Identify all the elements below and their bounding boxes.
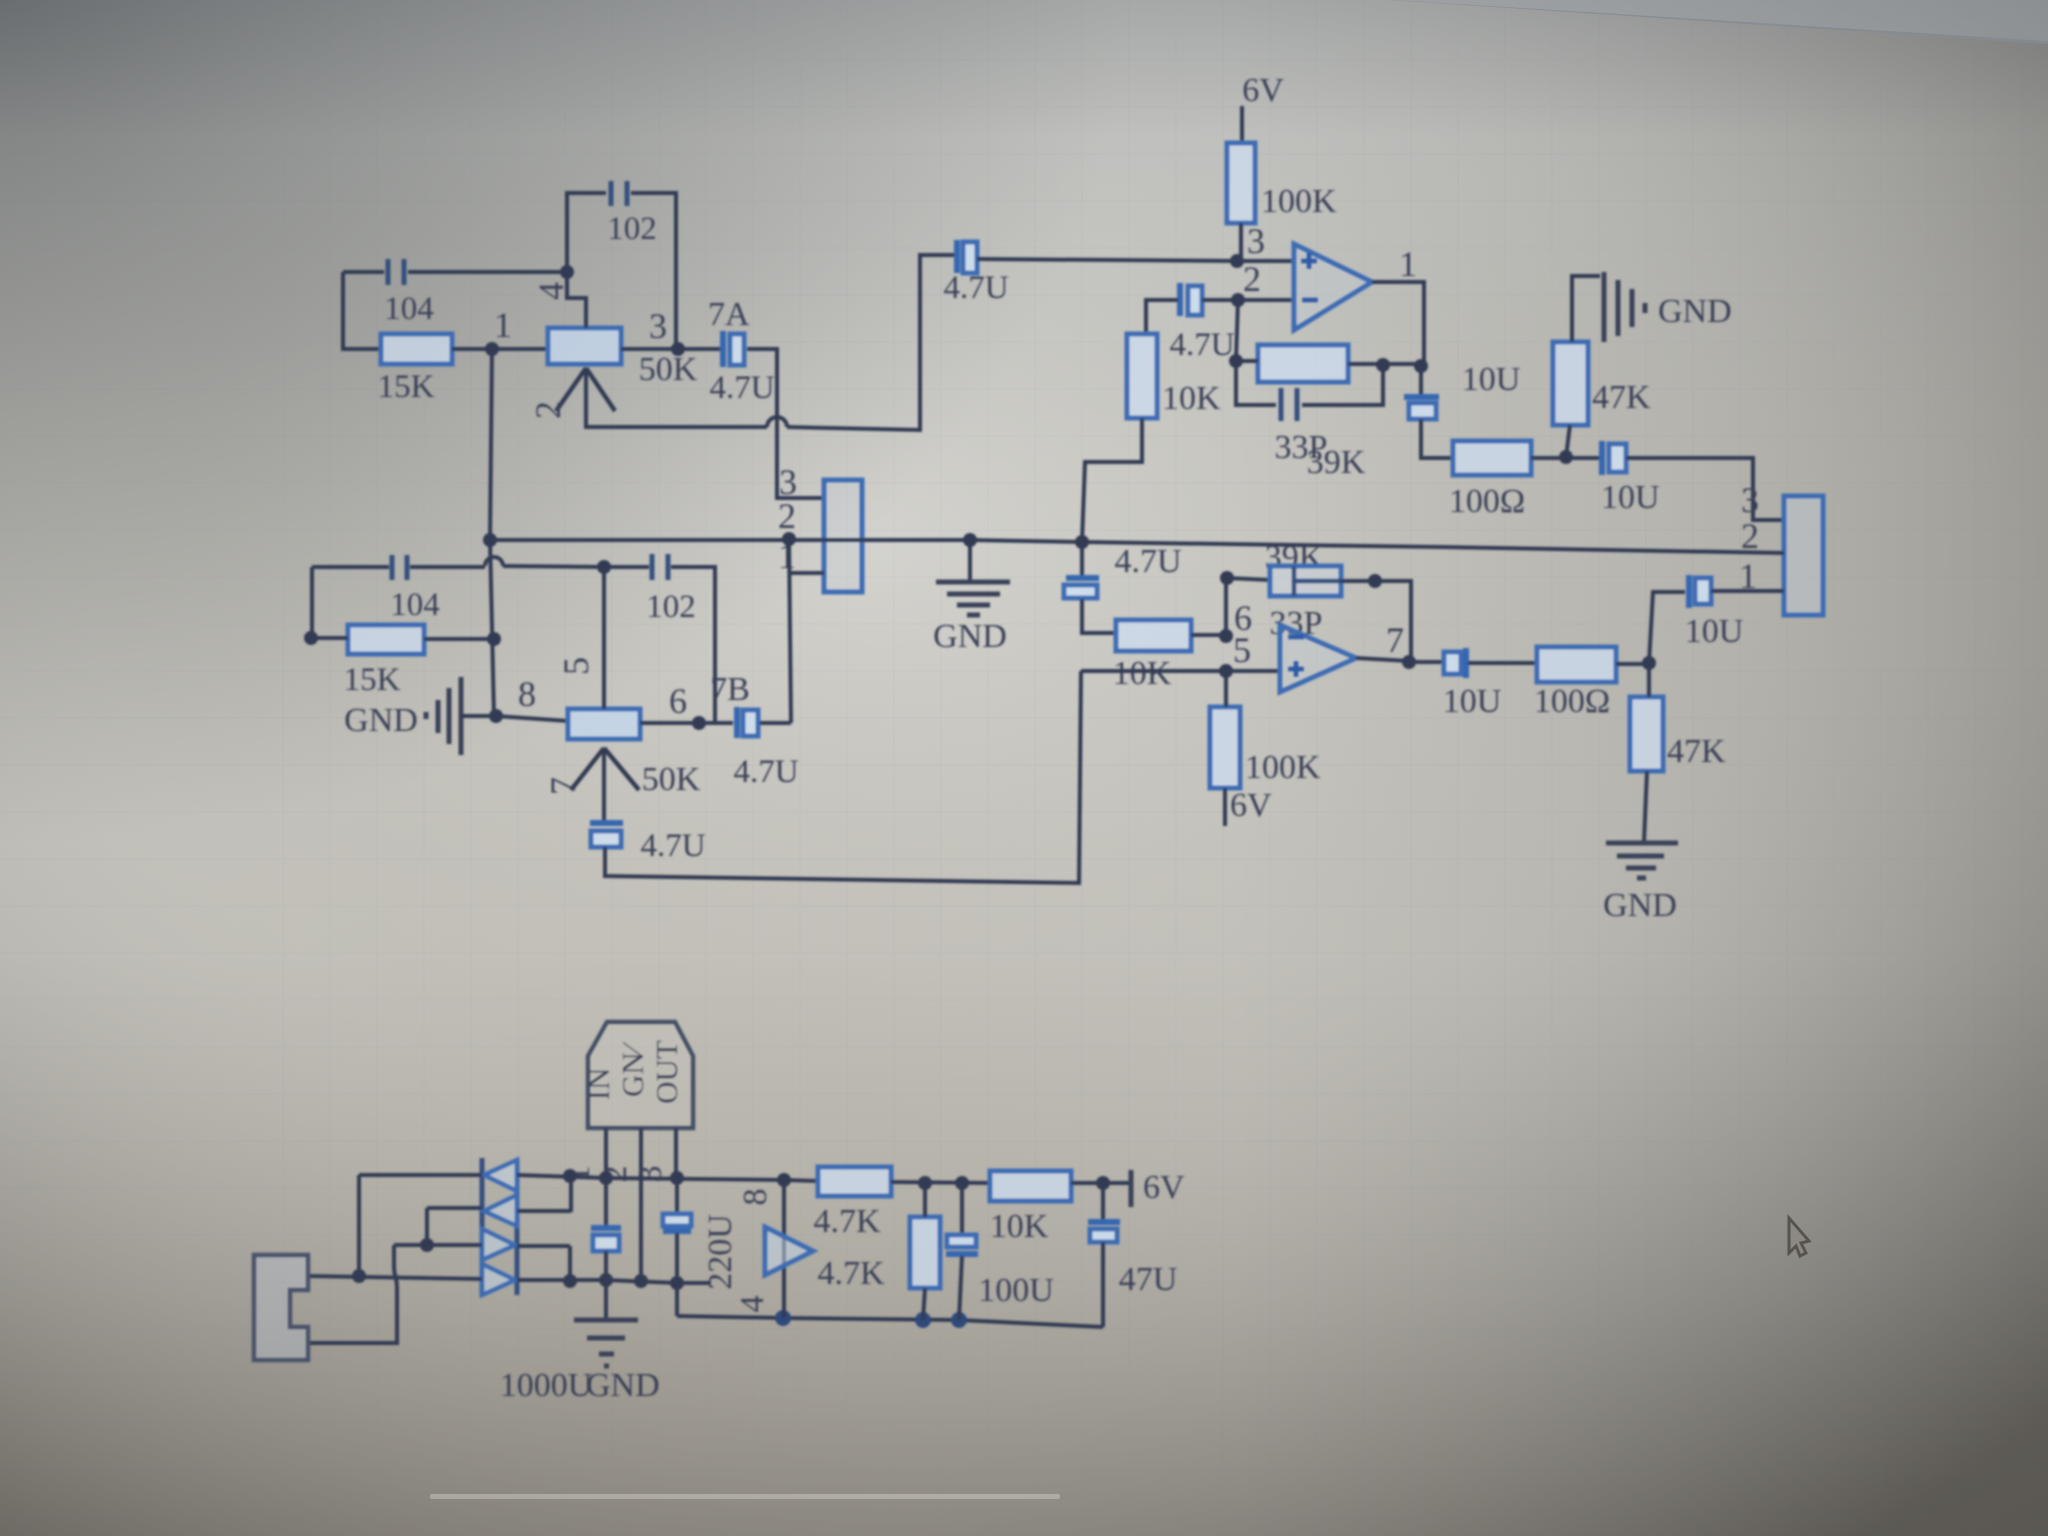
- wire pot A wiper rail with hop: [586, 368, 767, 427]
- svg-text:GN⁄: GN⁄: [615, 1041, 650, 1097]
- resistor 10K (A input): [1127, 334, 1157, 418]
- junction row1/leg3: [670, 1171, 684, 1185]
- svg-text:10K: 10K: [1113, 655, 1172, 692]
- svg-text:3: 3: [649, 306, 667, 346]
- junction GND / pin8 node: [489, 709, 503, 723]
- op-amp 7A triangle: [1294, 244, 1372, 330]
- op-amp B plus input mark: [1288, 661, 1304, 677]
- op-amp B minus input mark: [1288, 635, 1304, 640]
- wire pot B pin6: [640, 721, 733, 725]
- junction row4/plug riser: [352, 1269, 366, 1283]
- svg-text:10K: 10K: [990, 1208, 1049, 1245]
- wire 104B loop left leg: [310, 567, 314, 638]
- ground GND (A, rotated bars): [1602, 272, 1607, 342]
- wire pin6 feedback up: [1224, 578, 1228, 636]
- junction output node (B): [1402, 655, 1416, 669]
- svg-text:220U: 220U: [702, 1214, 739, 1290]
- mouse cursor: [1789, 1218, 1809, 1256]
- bottom reflection streak: [430, 1494, 1060, 1499]
- wire main ground rail: [490, 540, 1784, 553]
- capacitor 10U (A out coupling, vertical): [1419, 366, 1423, 396]
- junction 15K B right on rail: [487, 632, 501, 646]
- wire row3 right column down: [568, 1246, 572, 1281]
- wire left vertical rail x=492 down to GND-B junction: [490, 349, 494, 716]
- wire ground to pin8 junction: [461, 714, 496, 718]
- wire B output vertical to rail and pin1 tee: [789, 539, 791, 723]
- wire fb resistor verticals: [923, 1183, 925, 1320]
- svg-text:5: 5: [556, 657, 596, 675]
- svg-text:1000U: 1000U: [500, 1367, 593, 1404]
- junction row4/leg2: [634, 1274, 648, 1288]
- junction feedback node (A): [1229, 354, 1243, 368]
- svg-text:100K: 100K: [1261, 183, 1337, 220]
- svg-text:4: 4: [734, 1296, 771, 1313]
- svg-text:4.7U: 4.7U: [709, 370, 774, 406]
- wire node up to 10U (B second): [1649, 592, 1685, 663]
- svg-text:104: 104: [390, 587, 440, 623]
- resistor 4.7K (feedback, vertical): [910, 1217, 940, 1288]
- svg-text:10U: 10U: [1443, 683, 1502, 720]
- junction 15K B left: [304, 631, 318, 645]
- junction rail/100U: [951, 1312, 967, 1328]
- capacitor 220U: [675, 1178, 679, 1214]
- resistor 15K (A): [381, 334, 452, 364]
- wire pin5 to 100K: [1224, 671, 1228, 707]
- svg-text:4.7U: 4.7U: [733, 754, 798, 790]
- svg-text:4.7U: 4.7U: [640, 828, 705, 864]
- diode D1: [484, 1160, 517, 1191]
- junction rail left end: [483, 533, 497, 547]
- wire 104A loop left leg: [343, 272, 381, 349]
- wire regulator leg 1 (IN): [604, 1128, 608, 1178]
- svg-text:10K: 10K: [1162, 380, 1221, 417]
- capacitor C 102 (B): [652, 554, 668, 580]
- junction row1/right column: [563, 1169, 577, 1183]
- wire op amp A output: [1372, 282, 1424, 366]
- op-amp A minus input mark: [1302, 298, 1318, 303]
- wire node to 47K top: [1647, 663, 1651, 697]
- wire 4.7U left to 10K top: [1146, 300, 1178, 334]
- svg-text:GND: GND: [344, 702, 418, 739]
- resistor 4.7K (series): [818, 1167, 891, 1196]
- ground mid symbol: [968, 540, 972, 581]
- wire 102B right leg down: [671, 567, 715, 723]
- junction 33P right (B): [1368, 574, 1382, 588]
- junction row1/leg1: [599, 1171, 613, 1185]
- wire pin2 feedback vertical: [1236, 300, 1238, 361]
- wire power bottom rail: [677, 1316, 1103, 1327]
- wire op amp B output: [1356, 658, 1409, 661]
- svg-text:GND: GND: [586, 1367, 660, 1404]
- svg-text:IN: IN: [581, 1068, 616, 1101]
- junction row4/220U column: [670, 1276, 684, 1290]
- capacitor 4.7U (7A coupling): line + box plate: [720, 331, 726, 367]
- wire 10U to connector pin1: [1711, 589, 1784, 593]
- wire 15K right to pot A pin1: [452, 347, 548, 351]
- junction rail/4.7K fb: [915, 1312, 931, 1328]
- junction pin2 node (op amp A): [1231, 293, 1245, 307]
- diode bridge left rail: [480, 1158, 485, 1295]
- wire wiper shaft down: [602, 748, 606, 822]
- capacitor 100U: [960, 1183, 964, 1235]
- svg-text:2: 2: [778, 496, 796, 536]
- diode bridge right rail: [515, 1160, 520, 1295]
- wire 10U to 100ohm (B): [1468, 661, 1537, 665]
- wire 10U to 100ohm: [1421, 419, 1453, 458]
- capacitor 47U: [1101, 1183, 1105, 1222]
- diode D4: [482, 1264, 515, 1295]
- wire pin8 to pot B: [496, 716, 568, 721]
- wire regulator leg 2 (GND): [639, 1128, 643, 1281]
- wire cap to 10K (B): [1082, 599, 1116, 633]
- junction node (B top, pin5 column): [597, 560, 611, 574]
- wire 15K right to rail: [424, 637, 494, 641]
- resistor 100K (A bias): [1227, 143, 1255, 223]
- wire 104A top left segment: [343, 270, 384, 274]
- wire plug riser to row1: [357, 1175, 361, 1276]
- capacitor 10U (B out coupling): [1409, 660, 1445, 664]
- junction row4/1000U column: [599, 1273, 613, 1287]
- resistor 15K (B): [348, 625, 424, 654]
- wire 7A cap output down to connector pin3: [747, 349, 824, 498]
- junction row4/right column: [563, 1274, 577, 1288]
- wire 39K to output node: [1348, 362, 1421, 366]
- svg-text:3: 3: [1741, 480, 1759, 520]
- svg-text:100U: 100U: [978, 1272, 1054, 1309]
- op-amp 7B triangle: [1280, 625, 1356, 692]
- junction rail/op amp pin4: [775, 1310, 791, 1326]
- capacitor 4.7U (B input, vertical): [1066, 575, 1099, 581]
- wire bridge row2: [427, 1208, 571, 1211]
- junction rail / mid GND: [963, 533, 977, 547]
- op-amp power pin8/pin4 vertical: [782, 1180, 786, 1318]
- capacitor 33P (B) boxed symbol: [1270, 566, 1341, 596]
- capacitor 4.7U (A inverting input): [1177, 283, 1183, 316]
- junction 4.7K fb top: [918, 1176, 932, 1190]
- op-amp A plus input mark: [1301, 253, 1317, 269]
- junction node 1 (A): [485, 342, 499, 356]
- svg-text:102: 102: [646, 589, 696, 625]
- resistor 47K (A load): [1553, 342, 1588, 425]
- capacitor C 104 (A): [388, 259, 404, 285]
- resistor 47K (B load): [1630, 697, 1663, 771]
- junction 47U top: [1096, 1176, 1110, 1190]
- capacitor C 104 (B): [392, 555, 407, 580]
- wire 104A top right segment: [408, 270, 567, 274]
- svg-text:15K: 15K: [344, 662, 401, 698]
- potentiometer 50K (A) body: [548, 328, 621, 364]
- svg-text:2: 2: [528, 401, 568, 419]
- capacitor C 102 (A): [611, 181, 627, 206]
- junction pin6 node (pot B): [692, 716, 706, 730]
- svg-text:6V: 6V: [1230, 787, 1272, 824]
- ground symbol (B left, rotated bars): [424, 712, 429, 719]
- wire 104B top left segment: [312, 565, 389, 569]
- svg-text:47U: 47U: [1119, 1261, 1178, 1298]
- resistor 10K (B input): [1116, 620, 1191, 651]
- wire regulator leg 3 (OUT): [674, 1128, 678, 1178]
- wire 102B segment: [604, 565, 649, 569]
- wire 102A right leg down to pin3 node: [631, 193, 676, 349]
- svg-text:GND: GND: [933, 618, 1007, 655]
- wire 47K top to GND symbol: [1572, 276, 1600, 342]
- svg-text:GND: GND: [1658, 293, 1732, 330]
- svg-text:100K: 100K: [1245, 749, 1321, 786]
- wire bridge row4 from plug top pin: [308, 1276, 711, 1283]
- schematic layer: [254, 72, 1823, 1404]
- svg-text:8: 8: [518, 674, 536, 714]
- wire 100K to pin3: [1239, 223, 1243, 261]
- junction node 3 (A): [671, 342, 685, 356]
- svg-text:10U: 10U: [1601, 479, 1660, 516]
- wire row2 left column down: [425, 1208, 429, 1245]
- wire 47K to ground: [1644, 771, 1647, 842]
- wire pin5 long from B bottom network: [1081, 669, 1280, 673]
- diode D3: [482, 1229, 515, 1260]
- wire 10U to connector right pin3: [1626, 458, 1784, 520]
- wire fb node to 33P (B): [1227, 578, 1270, 580]
- svg-text:100Ω: 100Ω: [1534, 683, 1610, 720]
- junction rail / B input branch: [1075, 535, 1089, 549]
- wire 10K to pin6: [1191, 633, 1226, 637]
- svg-text:10U: 10U: [1685, 613, 1744, 650]
- junction B output divider node: [1642, 656, 1656, 670]
- svg-text:50K: 50K: [639, 351, 698, 388]
- regulator package outline: [588, 1022, 693, 1128]
- svg-text:3: 3: [1247, 221, 1265, 261]
- svg-text:2: 2: [1243, 259, 1261, 299]
- wire 100ohm to divider node (B): [1616, 662, 1649, 666]
- svg-text:47K: 47K: [1667, 733, 1726, 770]
- junction feedback node (B): [1220, 571, 1234, 585]
- junction pin6 node: [1219, 629, 1233, 643]
- svg-text:104: 104: [384, 291, 434, 327]
- wire cap to pin2: [1202, 298, 1294, 302]
- svg-text:4.7K: 4.7K: [817, 1255, 885, 1292]
- junction 39K right: [1376, 358, 1390, 372]
- junction output node (A): [1414, 359, 1428, 373]
- svg-text:15K: 15K: [378, 369, 435, 405]
- AC plug connector body: [254, 1255, 308, 1360]
- wire 4.7K to nodes: [891, 1182, 990, 1183]
- capacitor 10U (B to connector pin1): [1686, 575, 1692, 608]
- svg-text:4.7U: 4.7U: [943, 270, 1008, 306]
- svg-text:7: 7: [1386, 620, 1404, 660]
- diode D2: [484, 1195, 517, 1226]
- junction rail / B output vertical: [782, 532, 796, 546]
- wire 102A left leg: [567, 193, 606, 272]
- svg-text:OUT: OUT: [649, 1040, 684, 1104]
- svg-text:5: 5: [1233, 630, 1251, 670]
- svg-text:47K: 47K: [1592, 379, 1651, 416]
- capacitor 1000U: [604, 1178, 608, 1228]
- connector left body: [824, 480, 862, 592]
- resistor 100ohm (B): [1537, 647, 1616, 682]
- junction pin3 node (op amp A): [1230, 254, 1244, 268]
- svg-text:7B: 7B: [710, 671, 750, 708]
- svg-text:4: 4: [531, 282, 571, 300]
- svg-text:6: 6: [669, 681, 687, 721]
- wire rail to 4.7U (B): [1080, 542, 1084, 577]
- wire row3 feed from plug bottom pin with jog: [308, 1245, 397, 1343]
- wire 33P to output: [1340, 581, 1411, 662]
- wire 15K left: [311, 636, 348, 640]
- svg-text:10U: 10U: [1462, 361, 1521, 398]
- svg-text:8: 8: [737, 1189, 774, 1206]
- junction row3/left column: [420, 1238, 434, 1252]
- svg-text:6V: 6V: [1143, 1169, 1185, 1206]
- svg-text:1: 1: [494, 305, 512, 345]
- wire 100ohm to junction: [1531, 456, 1601, 460]
- wire pot B pin5 vertical: [602, 567, 606, 709]
- svg-text:4.7U: 4.7U: [1114, 543, 1181, 580]
- svg-text:6V: 6V: [1242, 72, 1284, 109]
- junction pin5 node: [1219, 664, 1233, 678]
- svg-text:39K: 39K: [1307, 444, 1366, 481]
- resistor 100K (B bias): [1210, 707, 1240, 788]
- potentiometer 50K (B) body: [568, 709, 640, 739]
- wire bridge row3: [394, 1245, 570, 1246]
- wire 47K bottom to node: [1566, 425, 1570, 457]
- svg-text:1: 1: [1399, 244, 1417, 284]
- screen top-right edge band: [1390, 0, 2048, 44]
- op-amp power triangle: [765, 1227, 813, 1275]
- wire bridge row1 right to regulator and filters: [517, 1175, 818, 1181]
- svg-text:GND: GND: [1603, 887, 1677, 924]
- wire 7B cap to B output vertical: [760, 721, 791, 725]
- svg-text:4.7K: 4.7K: [813, 1203, 881, 1240]
- svg-text:4.7U: 4.7U: [1169, 327, 1234, 363]
- capacitor 33P (A): plates: [1236, 361, 1383, 405]
- wire fb node to 39K: [1236, 359, 1258, 363]
- wire pot A pin4: [567, 272, 586, 328]
- junction A output divider node: [1559, 450, 1573, 464]
- terminal 6V bar: [1129, 1170, 1134, 1207]
- power 6V stub (top): [1240, 106, 1244, 143]
- connector right body: [1784, 496, 1823, 615]
- svg-text:102: 102: [607, 211, 657, 247]
- wire B wiper cap to pin5 riser: [605, 671, 1081, 883]
- wire row2 right column up: [569, 1176, 573, 1212]
- resistor 39K (A feedback): [1258, 345, 1348, 382]
- capacitor 4.7U (B wiper, vertical): [590, 820, 623, 826]
- ground GND (B bottom right): [1606, 843, 1678, 878]
- svg-text:100Ω: 100Ω: [1449, 483, 1525, 520]
- svg-text:7A: 7A: [708, 296, 750, 333]
- svg-text:50K: 50K: [642, 761, 701, 798]
- pot B wiper arrow: [571, 748, 639, 790]
- wire 10K bottom to main rail: [1082, 418, 1142, 542]
- junction 100U top: [955, 1176, 969, 1190]
- resistor 100ohm (A): [1453, 441, 1531, 475]
- ground earth (power mid): [604, 1280, 608, 1318]
- wire 104B top with hop over rail: [410, 565, 485, 569]
- pot A wiper arrow: [556, 368, 615, 411]
- junction row1/op amp pin8: [777, 1173, 791, 1187]
- capacitor 4.7U (A mid coupling): [954, 240, 960, 273]
- wire 100K to 6V: [1223, 788, 1227, 826]
- wire cap to op-amp pin3: [977, 259, 1294, 261]
- svg-text:7: 7: [543, 777, 583, 795]
- resistor 10K (power): [990, 1171, 1071, 1201]
- wire pot A pin3: [621, 347, 721, 351]
- wire bridge row1 left: [359, 1173, 482, 1177]
- capacitor 4.7U (7B coupling): [734, 707, 740, 738]
- wire 10K to 6V: [1071, 1181, 1131, 1185]
- junction node 4 (A): [560, 265, 574, 279]
- capacitor 10U (A to connector pin3): [1599, 441, 1605, 475]
- svg-text:2: 2: [1741, 516, 1759, 556]
